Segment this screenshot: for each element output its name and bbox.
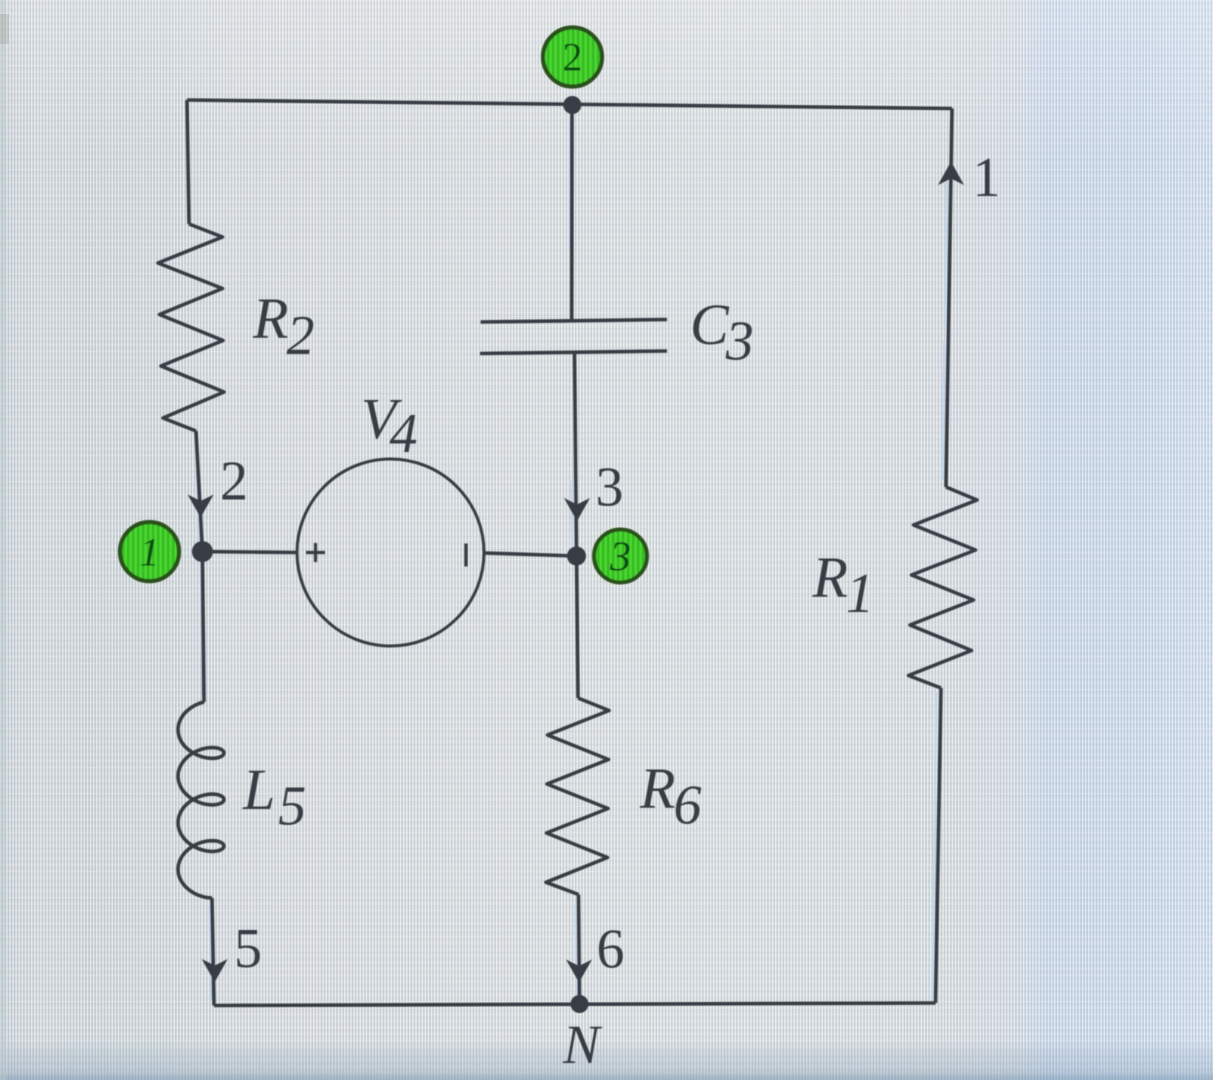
wire R6 to bottom rail (579, 895, 580, 1004)
current arrow 1 (up) (938, 162, 964, 186)
voltage source minus terminal (vertical dash) (464, 544, 467, 567)
svg-text:6: 6 (597, 919, 625, 981)
wire V4 to node3 (484, 553, 577, 556)
chromatic fringe highlights (197, 115, 947, 1000)
current arrow 3 (down) (564, 498, 590, 521)
resistor R6 (546, 698, 609, 895)
svg-text:2: 2 (563, 35, 583, 80)
wire left mid (R2 to node1) (196, 431, 202, 552)
svg-text:3: 3 (609, 535, 631, 581)
junction dot top (under node 2) (563, 96, 581, 114)
node 2 (green terminal) (543, 28, 602, 87)
wire middle upper (junction to C3) (570, 105, 574, 321)
node 3 (green terminal) (594, 530, 647, 583)
node 1 (green terminal) (120, 522, 179, 581)
wire node3 to R6 (577, 556, 579, 698)
current arrow 2 (down) (188, 495, 214, 518)
wire right upper (top corner to R1) (946, 109, 952, 488)
current arrow 5 (down) (202, 959, 228, 982)
svg-text:1: 1 (140, 530, 160, 575)
svg-text:1: 1 (973, 147, 1001, 209)
wire C3 to node3 (575, 353, 577, 556)
svg-text:N: N (562, 1014, 603, 1075)
wire node1 to V4 (202, 550, 297, 555)
svg-text:5: 5 (234, 918, 262, 980)
capacitor C3 bottom plate (480, 351, 667, 354)
wire left upper (top corner to R2) (187, 100, 189, 224)
capacitor C3 top plate (481, 320, 667, 323)
wire bottom rail (214, 1003, 936, 1006)
junction dot N (bottom) (571, 995, 589, 1013)
junction dot node 1 (192, 541, 213, 562)
svg-text:2: 2 (220, 451, 248, 513)
wire right lower (R1 to bottom corner) (936, 688, 942, 1003)
resistor R2 (158, 224, 224, 431)
voltage source V4 circle (297, 459, 484, 646)
inductor L5 (178, 702, 224, 898)
wire left lower (L5 to bottom corner) (212, 898, 214, 1006)
voltage source plus terminal (306, 543, 325, 562)
junction dot node 3 (567, 547, 586, 566)
left edge shade (0, 0, 6, 1080)
current arrow 6 (down) (566, 960, 592, 983)
wire node1 to inductor (202, 552, 204, 702)
wire top (node2 rail) (187, 100, 952, 109)
resistor R1 (909, 487, 978, 688)
svg-text:3: 3 (596, 457, 624, 519)
